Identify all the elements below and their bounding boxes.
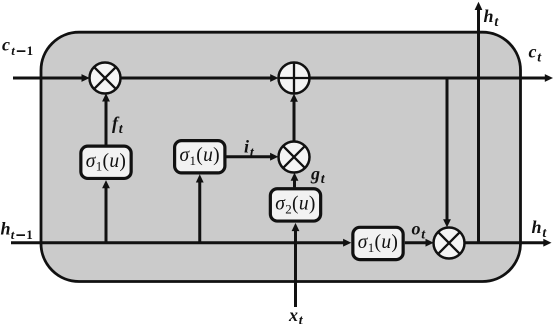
label c(t-1) <box>2 35 33 58</box>
wire: o-gate box to multiply node X3 <box>405 239 434 247</box>
wire: sigma2 box up to X2 <box>291 173 299 188</box>
multiply node X2 (input gate) <box>279 142 310 173</box>
box U2 sigma1(u) input gate <box>175 141 225 173</box>
svg-text:c: c <box>2 35 10 55</box>
svg-text:σ2(u): σ2(u) <box>275 193 315 216</box>
svg-text:t: t <box>11 227 15 242</box>
multiply node X3 (output gate) <box>434 228 465 259</box>
svg-text:ht: ht <box>532 217 548 241</box>
wire: i-gate box to multiply node X2 <box>227 153 279 161</box>
box U1 sigma1(u) forget gate <box>81 146 131 178</box>
wire: X3 to h_t right output <box>465 239 552 247</box>
svg-text:ct: ct <box>529 42 543 66</box>
wire: branch down from c-line to X3 <box>443 78 451 227</box>
box U4 sigma1(u) output gate <box>353 227 403 259</box>
svg-text:σ1(u): σ1(u) <box>86 151 126 174</box>
wire: branch up from h-line to h_t top output <box>475 2 483 243</box>
svg-text:1: 1 <box>26 227 33 242</box>
add node (plus) <box>279 63 310 94</box>
wire: h(t-1) input to sigma1 o-gate box <box>11 239 351 247</box>
box U3 sigma2(u) candidate <box>270 189 320 221</box>
wire: branch up from h-line to sigma1 i-gate box <box>196 174 204 244</box>
svg-text:ht: ht <box>484 6 500 30</box>
wire: X1 to add node <box>121 74 279 82</box>
svg-text:h: h <box>1 219 11 239</box>
wire: branch up from h-line to sigma1 f-gate box <box>102 180 110 244</box>
svg-text:σ1(u): σ1(u) <box>180 145 220 168</box>
svg-text:xt: xt <box>288 305 304 324</box>
wire: c(t-1) input into multiply node X1 <box>13 74 90 82</box>
wire: x_t input up into sigma2 box <box>292 223 300 307</box>
label h(t-1) <box>1 219 33 242</box>
svg-text:σ1(u): σ1(u) <box>358 232 398 255</box>
svg-text:t: t <box>11 43 15 58</box>
LSTM cell body <box>41 32 521 281</box>
multiply node X1 (forget gate) <box>90 63 121 94</box>
wire: X2 up to add node <box>290 94 298 142</box>
wire: f-gate box up to X1 <box>102 93 110 144</box>
svg-text:1: 1 <box>27 43 33 58</box>
wire: add node to c_t output <box>310 74 554 82</box>
